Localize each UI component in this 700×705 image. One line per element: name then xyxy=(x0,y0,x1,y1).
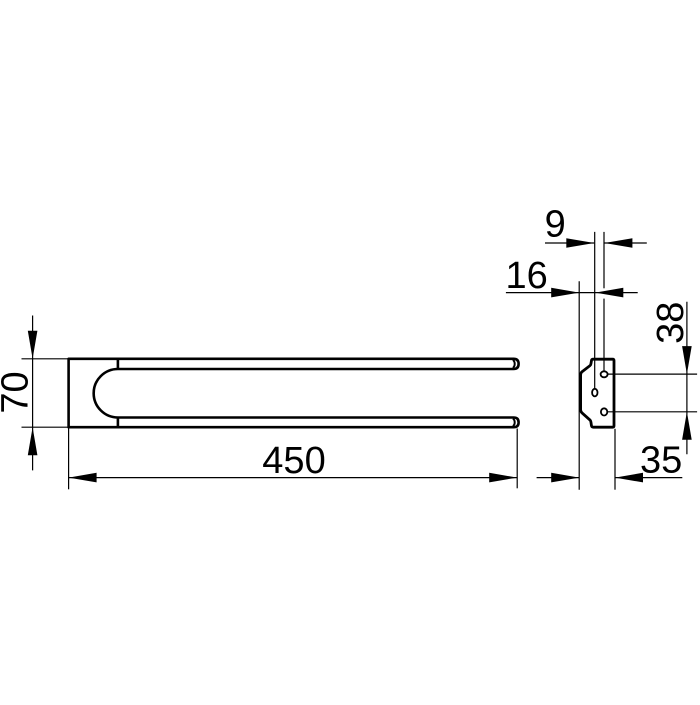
dimension 16: dimension line xyxy=(506,292,638,294)
dimension 70: upper arrow (points down) xyxy=(28,331,38,359)
towel bar outer outline (front view) xyxy=(69,359,519,427)
svg-text:38: 38 xyxy=(650,302,692,344)
svg-text:35: 35 xyxy=(640,439,682,481)
dimension 70: top extension line xyxy=(22,358,69,360)
side view: left rail line xyxy=(594,232,596,389)
dimension 450: right extension line xyxy=(516,429,518,489)
dimension 9: right arrow (points left) xyxy=(604,238,632,248)
dimension 38: dimension line xyxy=(686,302,688,455)
dimension 9: left arrow (points right) xyxy=(566,238,594,248)
dimension 35: right tail line xyxy=(615,477,682,479)
dimension 38: top reference line xyxy=(607,373,697,375)
side view: right rail line upper part xyxy=(603,232,605,288)
dimension 16: left extension line (also 35 left extension) xyxy=(578,281,580,490)
dimension 450: dimension line xyxy=(69,477,518,479)
dimension 38: lower arrow (points up) xyxy=(682,412,692,440)
dimension 35: right extension line xyxy=(614,429,616,490)
wall plate right edge lower segment xyxy=(117,418,120,429)
dimension 35: right arrow (points left) xyxy=(615,473,643,483)
dimension 35: left arrow (points right) xyxy=(551,473,579,483)
bottom arm tip inner arc xyxy=(513,419,515,427)
bottom screw hole oval xyxy=(601,408,607,415)
middle set screw oval xyxy=(592,389,597,397)
dimension 9: left tail line xyxy=(545,242,594,244)
dimension 38: bottom reference line xyxy=(607,411,697,413)
svg-text:9: 9 xyxy=(545,204,566,246)
dimension 450: left arrow (points left) xyxy=(69,473,97,483)
dimension 70: bottom extension line xyxy=(22,426,69,428)
dimension 35: left tail line xyxy=(537,477,580,479)
side view: right rail line lower part xyxy=(603,299,605,372)
dimension 16: left arrow (points right) xyxy=(551,288,579,298)
dimension 38: upper arrow (points down) xyxy=(682,346,692,374)
dimension 9: right tail line xyxy=(604,242,646,244)
svg-text:16: 16 xyxy=(506,255,548,297)
svg-text:450: 450 xyxy=(262,440,325,482)
wall bracket outline (side view) xyxy=(581,359,614,427)
dimension 16: right arrow (points left) xyxy=(595,288,623,298)
wall plate right edge upper segment xyxy=(117,358,120,369)
top arm tip inner arc xyxy=(513,360,515,368)
top screw hole oval xyxy=(601,371,608,377)
dimension 70: dimension line xyxy=(32,316,34,471)
dimension 450: left extension line xyxy=(68,429,70,490)
svg-text:70: 70 xyxy=(0,371,37,413)
dimension 70: lower arrow (points up) xyxy=(28,427,38,455)
dimension 450: right arrow (points right) xyxy=(489,473,517,483)
